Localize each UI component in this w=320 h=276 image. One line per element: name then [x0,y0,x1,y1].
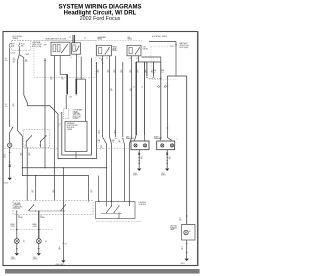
svg-text:16: 16 [13,58,15,60]
svg-text:C-2: C-2 [98,141,101,143]
svg-text:TIMES: TIMES [13,38,19,40]
svg-text:54: 54 [5,104,7,106]
svg-text:54: 54 [4,155,6,157]
svg-text:G104 (LEFT): G104 (LEFT) [56,264,65,266]
svg-text:JUNCTION: JUNCTION [73,115,81,117]
svg-text:30: 30 [99,58,101,60]
svg-text:BK: BK [169,158,171,160]
svg-text:30: 30 [130,58,132,60]
svg-text:C: C [177,139,178,141]
svg-text:(LEFT): (LEFT) [161,174,166,176]
svg-text:TURN: TURN [33,226,37,228]
svg-text:OFF: OFF [44,44,47,46]
svg-text:C2: C2 [59,124,61,126]
svg-text:HOT AT ALL TIMES: HOT AT ALL TIMES [152,35,168,38]
svg-text:CONTROL: CONTROL [139,204,147,206]
svg-text:BK: BK [141,158,143,160]
svg-text:(GEM): (GEM) [67,129,73,131]
svg-text:16: 16 [12,104,14,106]
svg-text:G104: G104 [4,182,8,184]
svg-text:C3: C3 [84,38,86,40]
svg-text:C-2: C-2 [112,141,115,143]
svg-text:87: 87 [137,58,139,60]
svg-text:BK: BK [181,248,183,250]
svg-text:(LEFT): (LEFT) [133,174,138,176]
svg-text:BOX (CJB): BOX (CJB) [73,116,81,118]
svg-text:RD/BK: RD/BK [18,217,22,219]
svg-text:(LEFT): (LEFT) [33,258,38,260]
svg-text:2002 Ford Focus: 2002 Ford Focus [80,16,121,22]
svg-text:RD: RD [119,141,121,143]
svg-text:C1049: C1049 [25,54,30,56]
svg-text:C1: C1 [69,37,71,39]
svg-text:(LEFT): (LEFT) [11,258,16,260]
svg-text:C2: C2 [133,87,135,89]
svg-text:C2: C2 [141,87,143,89]
svg-text:1: 1 [59,125,60,127]
svg-text:RD: RD [111,90,113,92]
svg-text:LIGHTING: LIGHTING [139,202,147,204]
svg-text:BOX (CJB): BOX (CJB) [32,46,42,48]
svg-text:MODULE: MODULE [14,208,20,210]
svg-text:BOX (BJB): BOX (BJB) [180,47,189,49]
svg-text:BK: BK [59,249,61,251]
svg-text:F2.17: F2.17 [11,44,15,46]
svg-text:87: 87 [106,58,108,60]
svg-text:G201: G201 [181,263,185,265]
svg-text:C-1: C-1 [153,72,156,74]
svg-text:F2.14: F2.14 [21,44,25,46]
svg-text:C1049: C1049 [11,52,16,54]
svg-text:16: 16 [25,59,27,61]
svg-text:C-2: C-2 [161,72,164,74]
svg-text:C202: C202 [69,97,73,99]
svg-text:54: 54 [5,58,7,60]
svg-text:FUSE 8: FUSE 8 [73,118,79,120]
svg-text:TURN: TURN [11,226,15,228]
svg-text:DRL: DRL [143,47,146,49]
svg-text:C1: C1 [65,244,67,246]
svg-text:RD/BK: RD/BK [40,217,44,219]
